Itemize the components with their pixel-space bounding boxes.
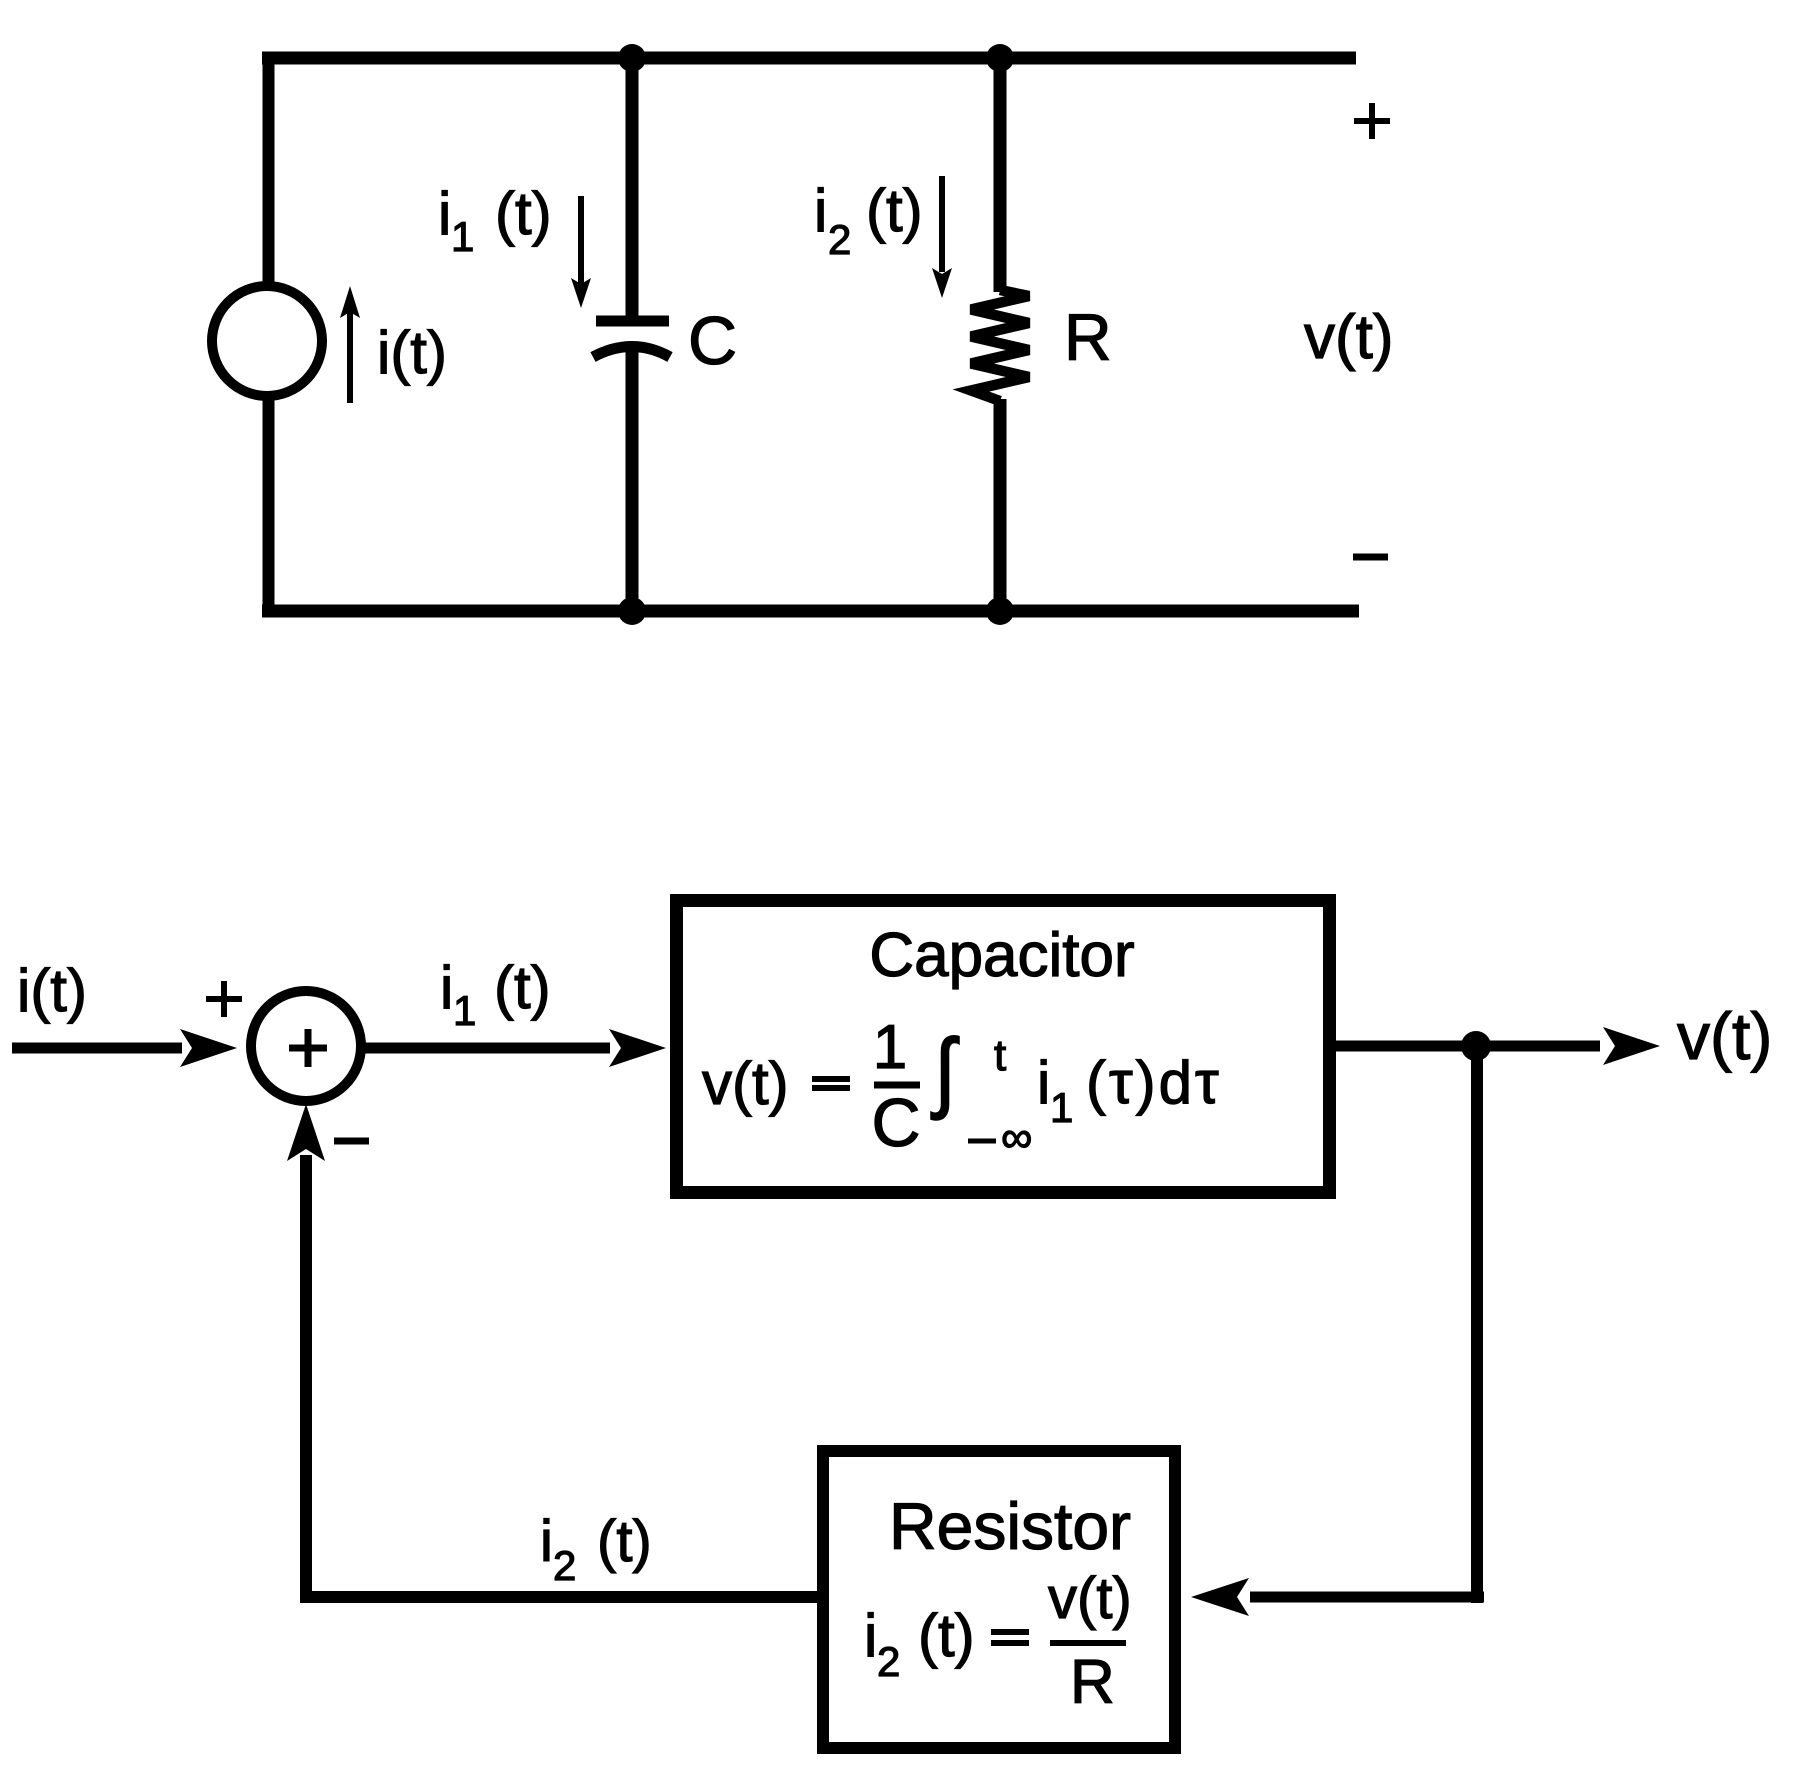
svg-text:i(t): i(t) <box>17 957 87 1024</box>
node bottom-C junction <box>618 597 646 625</box>
arrow i(t) shaft <box>347 312 353 403</box>
svg-text:(t): (t) <box>866 177 923 244</box>
node top-R junction <box>986 44 1014 72</box>
svg-text:(τ)dτ: (τ)dτ <box>1086 1049 1222 1116</box>
wire summer to capacitor block <box>361 1043 610 1054</box>
fraction bar <box>874 1082 920 1089</box>
svg-text:v(t): v(t) <box>1304 303 1394 372</box>
arrow i2 down head <box>932 268 952 298</box>
node output junction <box>1461 1031 1491 1061</box>
arrowhead into capacitor block <box>609 1029 666 1067</box>
svg-text:C: C <box>688 303 737 379</box>
block capacitor box <box>677 901 1330 1193</box>
svg-text:1: 1 <box>451 213 474 260</box>
node bottom-R junction <box>986 597 1014 625</box>
summing junction circle <box>251 991 361 1101</box>
svg-text:i: i <box>540 1509 553 1574</box>
svg-text:Resistor: Resistor <box>889 1489 1131 1563</box>
wire feedback right vertical <box>1471 1046 1483 1603</box>
label + terminal <box>1354 103 1390 139</box>
svg-text:∞: ∞ <box>1001 1113 1032 1162</box>
svg-text:1: 1 <box>453 987 476 1034</box>
summing junction plus sign <box>289 1029 327 1067</box>
arrow i(t) head <box>340 286 360 318</box>
svg-text:(t): (t) <box>918 1602 975 1669</box>
resistor R zigzag <box>971 290 1029 401</box>
arrow i1 down shaft <box>578 196 584 284</box>
svg-text:2: 2 <box>553 1542 576 1589</box>
current source i(t) <box>212 286 322 396</box>
block resistor box <box>823 1451 1175 1748</box>
svg-text:i(t): i(t) <box>377 319 447 386</box>
wire left branch upper <box>263 52 275 290</box>
label - at summer feedback <box>334 1138 369 1145</box>
equation equals sign <box>991 1632 1029 1643</box>
arrow i1 down head <box>571 278 591 308</box>
wire top bus <box>262 52 1356 65</box>
label + at summer input <box>206 981 242 1017</box>
svg-text:t: t <box>994 1031 1006 1080</box>
svg-text:i: i <box>438 180 451 247</box>
node top-C junction <box>618 44 646 72</box>
svg-text:Capacitor: Capacitor <box>869 921 1134 990</box>
svg-text:C: C <box>871 1085 920 1161</box>
fraction bar <box>1050 1640 1126 1646</box>
arrowhead output v(t) <box>1603 1027 1660 1065</box>
svg-text:(t): (t) <box>494 954 551 1021</box>
svg-text:2: 2 <box>877 1638 900 1685</box>
wire bottom bus <box>262 605 1359 618</box>
wire left branch lower <box>263 393 275 617</box>
wire feedback right horizontal <box>1250 1592 1484 1603</box>
svg-text:R: R <box>1070 1648 1115 1717</box>
svg-text:2: 2 <box>828 216 851 263</box>
svg-text:v(t): v(t) <box>1048 1566 1132 1631</box>
arrowhead into summer <box>180 1029 237 1067</box>
wire resistor branch lower <box>994 399 1007 617</box>
equation equals sign <box>812 1079 850 1088</box>
wire capacitor branch upper <box>626 52 639 318</box>
svg-text:(t): (t) <box>495 180 552 247</box>
wire capacitor block output <box>1336 1041 1600 1052</box>
wire capacitor branch lower <box>626 350 639 617</box>
capacitor C top plate <box>596 316 669 327</box>
svg-text:∫: ∫ <box>931 1022 959 1120</box>
arrow i2 down shaft <box>939 176 945 272</box>
svg-text:i: i <box>1037 1049 1050 1116</box>
wire resistor branch upper <box>994 52 1007 292</box>
svg-text:(t): (t) <box>597 1509 652 1574</box>
svg-text:v(t): v(t) <box>702 1050 789 1117</box>
svg-text:i: i <box>814 177 827 244</box>
wire feedback left vertical up to summer <box>300 1155 312 1603</box>
svg-text:1: 1 <box>1050 1084 1073 1131</box>
arrowhead into summer (negative input) <box>287 1104 325 1161</box>
wire input i(t) <box>12 1043 182 1054</box>
svg-text:R: R <box>1064 300 1112 374</box>
arrowhead into resistor block <box>1191 1578 1249 1616</box>
integral lower limit -infinity <box>968 1139 996 1144</box>
wire feedback left horizontal <box>306 1591 823 1603</box>
svg-text:v(t): v(t) <box>1677 999 1772 1073</box>
label - terminal <box>1353 554 1388 561</box>
capacitor C bottom plate (curved) <box>593 347 670 358</box>
svg-text:1: 1 <box>873 1013 907 1082</box>
svg-text:i: i <box>864 1602 877 1669</box>
svg-text:i: i <box>440 954 453 1021</box>
